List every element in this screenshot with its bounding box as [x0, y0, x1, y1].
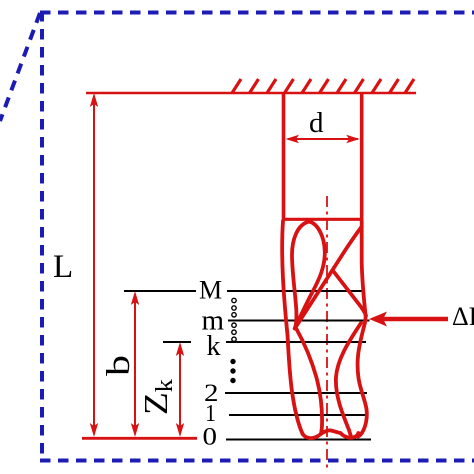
level line 1 — [229, 414, 368, 416]
level line M right — [227, 290, 364, 292]
d arrow right head — [346, 135, 360, 143]
frame diagonal — [0, 13, 40, 121]
dimension d arrow — [288, 138, 358, 140]
svg-text:L: L — [53, 249, 73, 285]
drill lower inner flute edge — [297, 329, 323, 433]
frame bottom — [40, 459, 474, 463]
shank right line — [360, 93, 364, 220]
ring dots column (M to k) — [232, 298, 236, 341]
Zk arrow down — [176, 423, 184, 437]
svg-text:0: 0 — [203, 422, 218, 451]
svg-text:d: d — [309, 107, 324, 139]
d arrow left head — [286, 135, 300, 143]
support baseline — [86, 92, 416, 94]
svg-text:b: b — [101, 355, 137, 376]
level line 0 black — [226, 439, 371, 441]
drill right outline with margin bulge — [358, 221, 367, 437]
b arrow up — [131, 291, 139, 305]
hatch marks — [232, 79, 414, 93]
level line m — [228, 320, 370, 322]
centerline (dash-dot) — [326, 196, 328, 472]
frame top (blue dashed border) — [40, 11, 474, 15]
level line k left — [163, 341, 191, 343]
svg-text:ΔR: ΔR — [452, 302, 474, 331]
delta R arrow head — [369, 312, 387, 327]
drill bottom cutting edge — [303, 430, 359, 438]
level line k right — [226, 341, 366, 343]
drill lower right land line — [336, 323, 361, 437]
drill helix upper right — [334, 272, 366, 316]
drill left outline — [282, 221, 303, 435]
dimension b line — [134, 294, 136, 434]
svg-text:M: M — [199, 276, 222, 305]
baseline 0 red — [82, 437, 197, 440]
b arrow down — [131, 423, 139, 437]
level line 2 — [225, 392, 367, 394]
svg-text:k: k — [207, 331, 221, 362]
label Zk (rotated) — [138, 379, 178, 415]
drill helix diagonal — [295, 228, 361, 329]
shank bottom line — [282, 218, 363, 221]
frame left — [40, 11, 44, 462]
L arrow down — [90, 423, 98, 437]
Zk arrow up — [176, 342, 184, 356]
delta R arrow shaft — [383, 317, 448, 322]
bold dots column (k to 2) — [230, 359, 235, 383]
drill flute oval left side — [292, 222, 309, 329]
L arrow up — [90, 93, 98, 107]
drill flute oval right side — [295, 222, 325, 329]
dimension Zk line — [179, 345, 181, 434]
dimension L line — [93, 96, 95, 434]
level line M left — [124, 290, 196, 292]
shank left line — [282, 93, 286, 220]
svg-text:Zk: Zk — [138, 379, 178, 415]
